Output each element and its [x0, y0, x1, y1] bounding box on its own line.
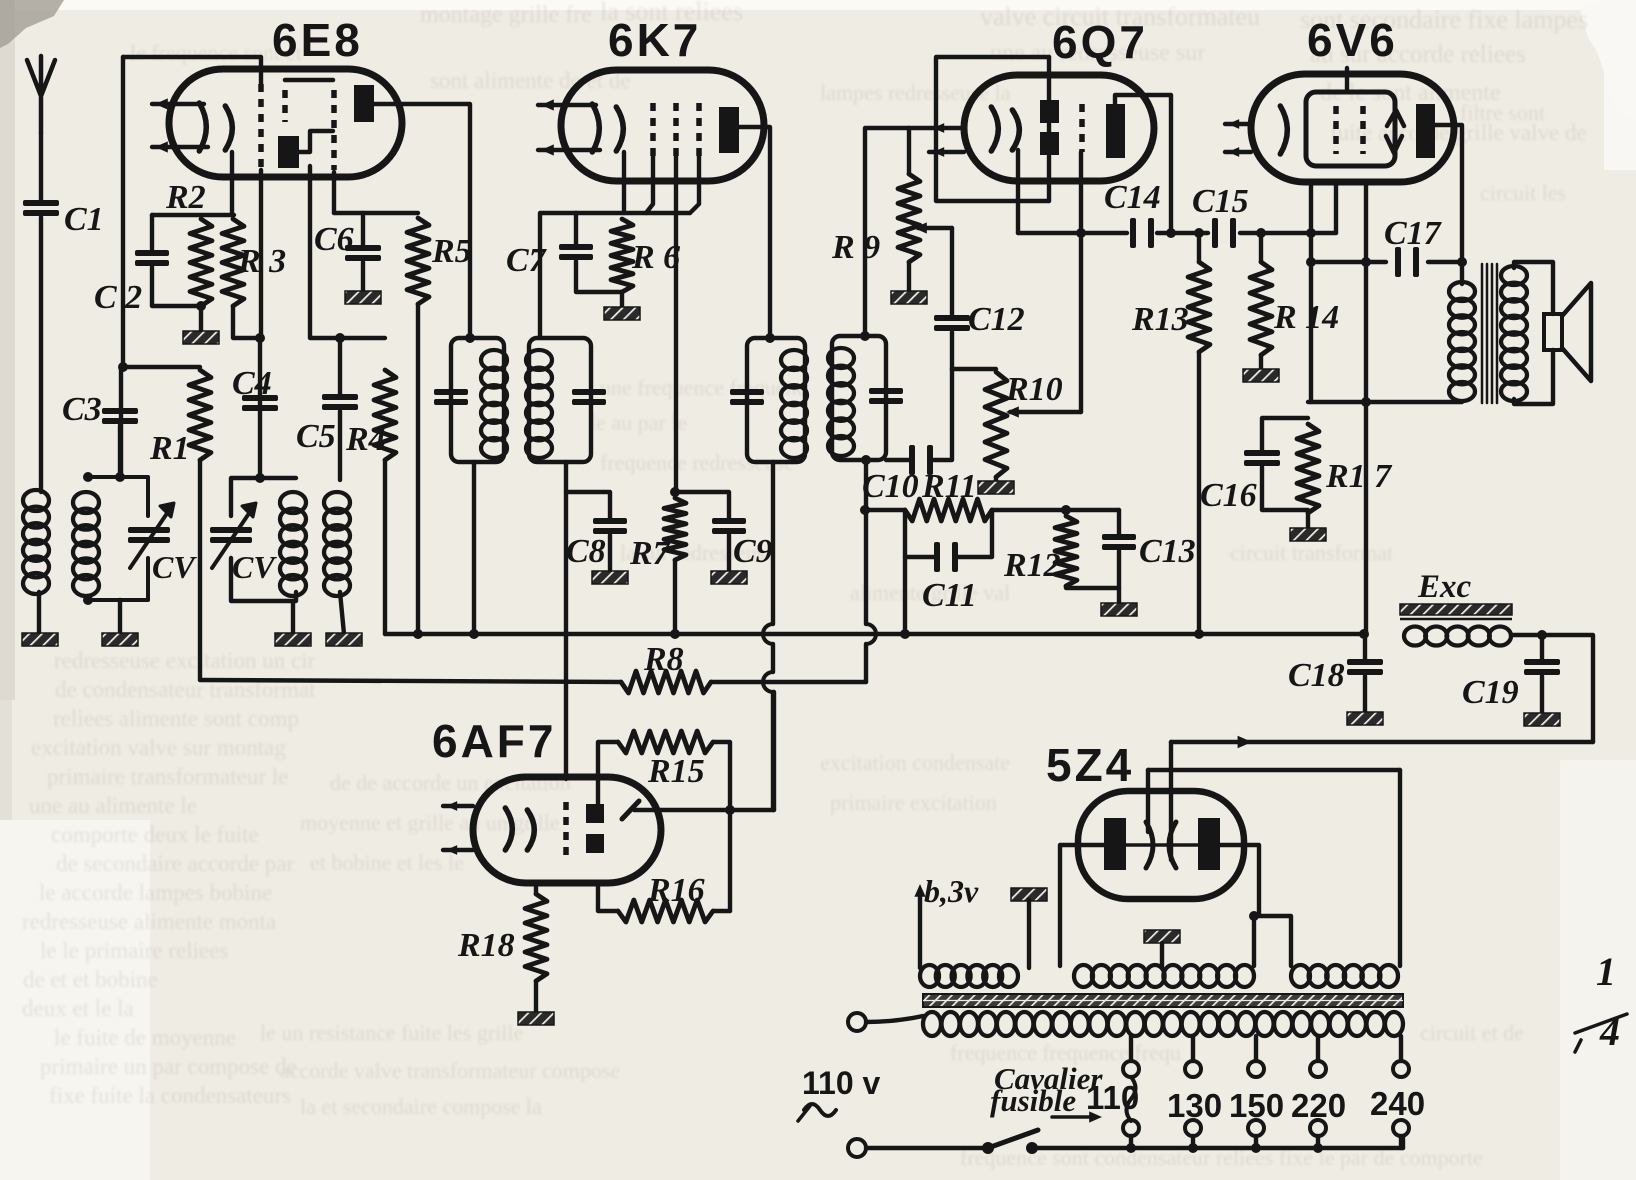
capacitor C13 [1102, 510, 1196, 604]
6AF7 pin stub 1 [443, 801, 473, 811]
wire 6Q7 plate out [1115, 95, 1171, 233]
svg-text:circuit transformat: circuit transformat [1230, 540, 1393, 565]
wire R6 ground [620, 292, 624, 308]
B+ arrow [1238, 736, 1252, 749]
svg-text:une frequence frequenc: une frequence frequenc [600, 375, 807, 400]
svg-text:C5: C5 [296, 418, 336, 455]
svg-text:110 v: 110 v [802, 1065, 881, 1101]
wire 6K7 plate out [739, 127, 770, 338]
tap circle [1248, 1061, 1264, 1077]
wire C5 branch [338, 338, 342, 395]
wire R9 top [907, 128, 911, 174]
label 6V6 [1307, 14, 1398, 66]
IF1 primary coil [481, 350, 507, 458]
node [1306, 257, 1316, 267]
6E8 plate step [298, 131, 333, 152]
svg-text:C17: C17 [1384, 215, 1443, 252]
ground [1524, 713, 1560, 726]
wire triode plate down [310, 166, 385, 338]
6Q7 pin stub 2 [929, 147, 964, 157]
resistor R7 [629, 498, 686, 572]
wire C8 branch [566, 462, 610, 521]
primary tap 110 [1129, 1036, 1133, 1061]
label 130 [1167, 1087, 1222, 1124]
svg-text:b,3v: b,3v [924, 873, 979, 909]
6V6 box stub [1345, 68, 1349, 92]
capacitor C11 loop [905, 510, 992, 614]
node [1194, 228, 1204, 238]
wire R13 to bus1 [1197, 352, 1201, 634]
wire C12 down [950, 332, 954, 369]
wire R10 ground [994, 477, 998, 482]
IF3 coil [828, 348, 854, 456]
coil L1 (antenna) [23, 490, 49, 594]
ground [1347, 712, 1383, 725]
svg-text:R5: R5 [431, 233, 472, 270]
svg-text:Exc: Exc [1417, 569, 1472, 605]
svg-text:primaire un par compose de: primaire un par compose de [40, 1054, 297, 1079]
fuse link [1127, 1077, 1136, 1121]
wire 6K7 grid lead [646, 156, 653, 213]
svg-text:R16: R16 [647, 872, 705, 909]
wire to 6AF7 grid [564, 492, 568, 779]
wire R7 to bus1 [673, 560, 677, 634]
svg-text:C11: C11 [922, 577, 977, 614]
svg-text:filtre sont: filtre sont [1460, 100, 1545, 125]
node [83, 472, 125, 605]
wire screen net [334, 172, 418, 213]
capacitor C15 [1192, 183, 1249, 248]
svg-text:excitation valve sur montag: excitation valve sur montag [31, 735, 286, 760]
svg-text:le le primaire reliees: le le primaire reliees [40, 938, 228, 963]
ground [183, 331, 219, 344]
6K7 grid dashes [653, 103, 699, 156]
capacitor C8 [566, 518, 627, 570]
wire 6.3V right riser [1027, 900, 1031, 968]
node [1061, 505, 1071, 515]
6AF7 target [622, 801, 639, 819]
wire 6Q7 cathode lead [1016, 150, 1020, 201]
node [413, 629, 680, 639]
svg-text:C16: C16 [1200, 477, 1257, 514]
wire R17 ground [1306, 513, 1310, 529]
node [255, 333, 265, 343]
IF1 secondary coil [526, 350, 552, 458]
speaker voice coil [1544, 314, 1562, 350]
label 5Z4 [1046, 739, 1134, 791]
svg-text:une au alimente le: une au alimente le [29, 793, 197, 818]
wire C3 to tank [120, 367, 121, 477]
page mark [1575, 949, 1627, 1054]
switch [982, 1130, 1038, 1154]
6E8 grid 1 dashes [258, 84, 264, 170]
svg-text:primaire transformateur le: primaire transformateur le [47, 764, 288, 789]
svg-text:R1 7: R1 7 [1325, 458, 1393, 495]
svg-text:C12: C12 [968, 301, 1025, 338]
6AF7 cathode [505, 808, 534, 850]
HV winding [1074, 965, 1254, 987]
rectifier filament winding 5V [1291, 965, 1398, 987]
svg-text:R 6: R 6 [631, 239, 680, 276]
svg-text:deux et le la: deux et le la [22, 996, 134, 1021]
tap stems [1131, 1136, 1401, 1148]
wire wiper to C12 [950, 228, 954, 318]
resistor R9 volume [831, 174, 920, 266]
svg-text:moyenne et grille au un grille: moyenne et grille au un grille [300, 810, 560, 835]
svg-text:redresseuse alimente monta: redresseuse alimente monta [22, 909, 276, 934]
resistor R17 [1297, 424, 1393, 513]
6Q7 grid dashes [1079, 104, 1085, 152]
capacitor C9 [712, 518, 773, 570]
ground [518, 1012, 554, 1025]
svg-text:C1: C1 [64, 201, 104, 238]
node [860, 331, 871, 465]
tube 6K7 envelope [561, 70, 764, 181]
resistor R8 [621, 641, 711, 693]
wire bus1 to right corner [1511, 635, 1593, 742]
6K7 plate [719, 107, 739, 153]
svg-text:150: 150 [1229, 1087, 1284, 1124]
wire antenna to C1 [39, 133, 43, 203]
wire 6K7 g2 down [674, 156, 678, 492]
wire HV right riser [1252, 916, 1256, 966]
primary tap 220 [1316, 1036, 1320, 1061]
node [1306, 228, 1316, 238]
6V6 beam box [1306, 92, 1395, 166]
6V6 pin stub 2 [1225, 147, 1251, 157]
6E8 pin stub 1 [152, 98, 204, 109]
ground [1144, 930, 1180, 943]
R9 wiper [914, 222, 952, 233]
wire R13 top [1197, 233, 1201, 262]
tap circle [1123, 1120, 1139, 1136]
capacitor C4 [232, 365, 278, 411]
svg-text:C18: C18 [1288, 657, 1345, 694]
label 6K7 [608, 14, 701, 66]
node [860, 505, 870, 515]
ground [22, 633, 58, 646]
arrow 6.3v [914, 884, 925, 897]
node [670, 487, 680, 497]
svg-text:C13: C13 [1139, 533, 1196, 570]
Exc field coil [1404, 627, 1511, 646]
wire jog to AVC line [1016, 201, 1020, 233]
capacitor C17 [1384, 215, 1443, 277]
wire R11 left [865, 508, 905, 512]
ground [102, 633, 138, 646]
svg-text:circuit les: circuit les [1480, 180, 1566, 205]
svg-text:C 2: C 2 [94, 279, 142, 316]
tube 5Z4 envelope [1078, 791, 1244, 899]
resistor R14 [1250, 262, 1339, 355]
wire B+ up [1169, 742, 1173, 860]
svg-text:le accorde lampes bobine: le accorde lampes bobine [39, 880, 272, 905]
svg-text:circuit et de: circuit et de [1420, 1020, 1524, 1045]
IF1 primary cap [434, 389, 468, 405]
6Q7 diode loop [936, 57, 1049, 201]
IF1 secondary cap [572, 389, 606, 405]
6K7 pin stub 2 [538, 144, 600, 155]
svg-text:fixe fuite la condensateurs: fixe fuite la condensateurs [49, 1083, 291, 1108]
svg-text:comporte deux le fuite: comporte deux le fuite [51, 822, 259, 847]
IF3 box [832, 336, 886, 460]
wire C1 to L1 [39, 217, 43, 492]
wire R18 ground [534, 981, 538, 1013]
svg-text:R12: R12 [1003, 547, 1061, 584]
IF2 box [747, 338, 805, 462]
6Q7 pin stub 1 arrow [933, 123, 944, 133]
6V6 beam arrows [1386, 110, 1404, 153]
wire R12 bottom [1066, 586, 1119, 588]
wire HV centre tap [1160, 943, 1164, 968]
6K7 cathode [592, 104, 623, 152]
svg-text:de et et bobine: de et et bobine [23, 967, 158, 992]
IF3 cap [869, 388, 903, 404]
tap circle [1393, 1120, 1409, 1136]
tap circle [1310, 1120, 1326, 1136]
wire 6E8 plate out [374, 104, 470, 338]
node [1126, 1143, 1323, 1153]
svg-text:fusible: fusible [990, 1083, 1076, 1118]
resistor R5 [407, 218, 472, 304]
wire grid net 6K7 [540, 211, 690, 215]
wire R16 left [598, 883, 618, 911]
capacitor C16 loop [1200, 418, 1308, 514]
tap circle [1123, 1061, 1139, 1077]
wire AVC line [1018, 231, 1336, 235]
capacitor C2 [94, 215, 201, 316]
6V6 cathode [1280, 106, 1287, 154]
svg-text:5Z4: 5Z4 [1046, 739, 1134, 791]
wire tank2 ground [291, 601, 295, 634]
ground [1290, 528, 1326, 541]
6Q7 diode lead [1047, 57, 1051, 201]
svg-text:R18: R18 [457, 927, 515, 964]
svg-text:130: 130 [1167, 1087, 1222, 1124]
capacitor C12 [934, 301, 1025, 338]
capacitor C10 [862, 445, 933, 505]
5Z4 anode right [1198, 818, 1220, 870]
svg-text:1: 1 [1596, 949, 1616, 994]
IF2 cap [730, 389, 764, 405]
svg-text:R 9: R 9 [831, 229, 880, 266]
label Cavalier fusible [990, 1061, 1103, 1118]
node [1249, 911, 1259, 921]
capacitor C6 [314, 213, 381, 292]
6AF7 grid dashes [563, 802, 569, 856]
wire junction to R1 [123, 365, 200, 369]
wire grid riser [1309, 233, 1313, 402]
node [1166, 228, 1176, 238]
wire eye B+ riser [772, 692, 776, 810]
resistor R13 [1131, 262, 1210, 352]
svg-text:et bobine et les le: et bobine et les le [310, 850, 464, 875]
node [335, 333, 345, 343]
svg-text:6K7: 6K7 [608, 14, 701, 66]
transformer core [923, 994, 1403, 1007]
wire target out [634, 808, 774, 812]
resistor R18 [457, 894, 547, 981]
label 110 [1086, 1079, 1139, 1116]
wire B+ return line [1171, 740, 1593, 744]
tap circle [1310, 1061, 1326, 1077]
6K7 pin stub 1 [538, 99, 596, 110]
wire 6V6 pin down [1334, 182, 1338, 233]
capacitor C19 [1462, 635, 1560, 714]
svg-text:220: 220 [1291, 1087, 1346, 1124]
wire C17 line [1311, 260, 1462, 264]
label 220 [1291, 1087, 1346, 1124]
resistor R6 [611, 219, 680, 292]
6Q7 cathode [991, 107, 1019, 151]
svg-text:de secondaire accorde par: de secondaire accorde par [56, 851, 294, 876]
ground [978, 481, 1014, 494]
wire tank1 to ground [118, 600, 122, 634]
svg-text:reliees alimente sont comp: reliees alimente sont comp [53, 706, 299, 731]
ground [1243, 369, 1279, 382]
svg-text:la et secondaire compose la: la et secondaire compose la [300, 1094, 542, 1119]
wire top grid line [123, 57, 261, 88]
6Q7 triode plate [1106, 104, 1125, 158]
wire R5 to bus1 [416, 304, 420, 634]
primary tap 150 [1254, 1036, 1258, 1061]
wire C11 to bus1 [903, 557, 907, 634]
ground [326, 633, 362, 646]
tube 6V6 envelope [1251, 74, 1454, 182]
label 240 [1370, 1085, 1425, 1122]
output transformer secondary [1501, 266, 1527, 401]
IF1 secondary box [529, 338, 591, 462]
mains terminal bottom [848, 1139, 866, 1157]
svg-text:le au par le: le au par le [590, 410, 687, 435]
node [196, 301, 206, 311]
speaker cone [1562, 283, 1591, 381]
5Z4 anode left [1104, 818, 1126, 870]
5Z4 filament [1146, 822, 1176, 868]
primary tap 240 [1399, 1036, 1403, 1061]
transformer core [1482, 264, 1497, 403]
6V6 pin stub 1 [1225, 119, 1251, 129]
wire cathode line [1308, 400, 1462, 404]
wire to R10 [952, 367, 996, 371]
6Q7 diode plates [1040, 100, 1059, 155]
svg-text:6E8: 6E8 [272, 14, 363, 66]
svg-text:C3: C3 [62, 391, 102, 428]
svg-text:4: 4 [1599, 1009, 1620, 1054]
svg-text:C4: C4 [232, 365, 272, 402]
svg-text:240: 240 [1370, 1085, 1425, 1122]
tube 6AF7 envelope [473, 777, 661, 883]
node [1359, 257, 1371, 639]
wire bus2 riser hop [866, 460, 876, 682]
wire 6K7 grid3 lead [690, 156, 699, 213]
label Exc [1417, 569, 1472, 605]
wire R14 top [1259, 233, 1263, 262]
wire mains bottom [866, 1146, 1403, 1150]
ground [592, 571, 628, 584]
svg-text:R11: R11 [921, 468, 977, 505]
6V6 plate [1416, 104, 1435, 158]
svg-text:excitation condensate: excitation condensate [820, 750, 1010, 775]
label 6E8 [272, 14, 363, 66]
wire 5V right leg [1398, 770, 1402, 966]
resistor R16 [618, 872, 730, 922]
tank2 rectangle [231, 478, 296, 601]
resistor R15 [618, 731, 713, 790]
svg-text:C9: C9 [733, 533, 773, 570]
node [1076, 228, 1086, 238]
6AF7 pin stub 2 [443, 845, 473, 855]
node [1457, 257, 1467, 267]
ground [275, 633, 311, 646]
variable capacitor CV1 [128, 503, 197, 585]
svg-text:C8: C8 [566, 533, 606, 570]
wire bus1 B+ [385, 632, 1364, 636]
coil L3 [280, 492, 306, 596]
wire 6V6 grid down [1309, 182, 1313, 233]
variable capacitor CV2 [210, 503, 277, 585]
svg-text:montage grille fre: montage grille fre [420, 2, 592, 28]
resistor R11 [905, 468, 992, 521]
svg-text:R2: R2 [165, 179, 206, 216]
svg-text:C15: C15 [1192, 183, 1249, 220]
Exc core bar [1400, 604, 1512, 619]
heater winding 6.3V [920, 965, 1018, 987]
tap circle [1248, 1120, 1264, 1136]
ground [1101, 603, 1137, 616]
wire diode line [865, 128, 964, 336]
wire R2 to ground [199, 306, 203, 332]
wire 6V6 plate out [1435, 125, 1462, 284]
capacitor C5 [296, 394, 358, 455]
node [900, 629, 910, 639]
node [1537, 630, 1547, 640]
primary tap 130 [1191, 1036, 1195, 1061]
wire R1 to bus [198, 460, 202, 680]
node [765, 333, 775, 343]
capacitor C3 [62, 391, 138, 428]
capacitor C7 [506, 213, 622, 292]
svg-text:R4: R4 [345, 421, 386, 458]
label b3v [924, 873, 979, 909]
capacitor C1 [23, 200, 104, 238]
svg-text:C19: C19 [1462, 674, 1519, 711]
svg-text:R1: R1 [149, 430, 190, 467]
wire terminal to primary [866, 1016, 923, 1022]
node [255, 473, 265, 483]
resistor R2 [165, 179, 212, 306]
capacitor C14 [1104, 179, 1161, 248]
tank L2/CV rectangle [88, 477, 148, 600]
label 150 [1229, 1087, 1284, 1124]
label 6Q7 [1052, 16, 1148, 68]
6E8 cathode [199, 103, 232, 151]
wire 6K7 cathode down [622, 152, 626, 213]
wire secondary bottom [1514, 350, 1553, 404]
label 6AF7 [432, 715, 556, 767]
6E8 triode plate [278, 136, 299, 168]
wire 6E8 hexode grid down [260, 170, 261, 478]
wire bus2 AVC [200, 680, 866, 682]
coil L5 [324, 492, 350, 596]
wire 6.3V left riser [918, 890, 922, 968]
wire grid vertical [121, 57, 125, 367]
wire secondary to speaker [1514, 262, 1553, 314]
svg-text:110: 110 [1086, 1079, 1139, 1116]
mains terminal top [848, 1013, 866, 1031]
resistor R10 [985, 371, 1063, 477]
tap circle [1185, 1120, 1201, 1136]
